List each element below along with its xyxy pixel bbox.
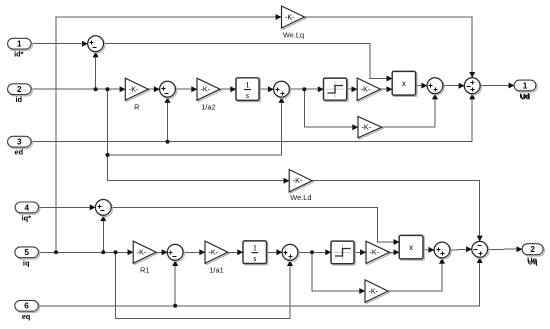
svg-text:s: s xyxy=(253,253,257,263)
svg-text:iq: iq xyxy=(23,258,30,267)
svg-text:s: s xyxy=(246,90,250,100)
svg-text:1: 1 xyxy=(523,81,528,90)
svg-text:Ud: Ud xyxy=(520,92,530,101)
svg-text:-K-: -K- xyxy=(370,249,380,257)
svg-text:4: 4 xyxy=(25,203,30,212)
svg-text:-K-: -K- xyxy=(361,86,371,94)
svg-text:-K-: -K- xyxy=(362,124,372,132)
svg-text:eq: eq xyxy=(22,312,31,321)
svg-text:1: 1 xyxy=(17,40,22,49)
svg-text:Uq: Uq xyxy=(528,258,538,267)
svg-text:ed: ed xyxy=(14,148,23,157)
svg-text:We.Lq: We.Lq xyxy=(283,30,304,39)
svg-text:-K-: -K- xyxy=(137,249,147,257)
svg-text:1: 1 xyxy=(253,244,257,253)
svg-text:2: 2 xyxy=(530,245,535,254)
svg-text:x: x xyxy=(402,79,406,88)
svg-text:-K-: -K- xyxy=(285,13,295,21)
svg-text:2: 2 xyxy=(17,85,22,94)
svg-text:R: R xyxy=(134,103,139,112)
svg-text:1/a2: 1/a2 xyxy=(201,103,215,112)
svg-text:-K-: -K- xyxy=(129,86,139,94)
svg-text:id: id xyxy=(16,95,23,104)
svg-text:We.Ld: We.Ld xyxy=(290,193,311,202)
svg-text:-K-: -K- xyxy=(209,249,219,257)
svg-text:iq*: iq* xyxy=(22,213,32,222)
svg-text:1/a1: 1/a1 xyxy=(209,266,223,275)
svg-text:6: 6 xyxy=(24,302,29,311)
svg-text:1: 1 xyxy=(245,80,249,89)
svg-text:id*: id* xyxy=(14,50,24,59)
svg-text:R1: R1 xyxy=(140,266,149,275)
svg-text:-K-: -K- xyxy=(201,86,211,94)
svg-text:3: 3 xyxy=(17,138,22,147)
svg-text:5: 5 xyxy=(24,248,29,257)
svg-text:-K-: -K- xyxy=(369,287,379,295)
svg-text:-K-: -K- xyxy=(293,177,303,185)
svg-text:x: x xyxy=(409,243,413,252)
